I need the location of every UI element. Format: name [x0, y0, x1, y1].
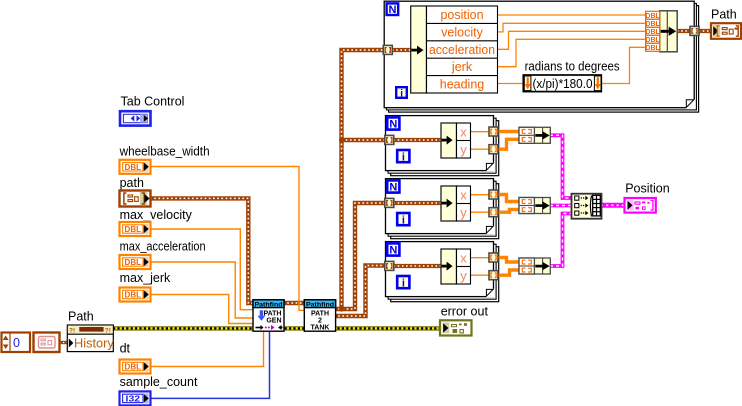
for-loop L3 (x/y loop 2) — [386, 179, 499, 239]
tunnel L2 left [] — [385, 135, 394, 144]
svg-text:Path: Path — [711, 8, 737, 22]
svg-text:dt: dt — [120, 342, 131, 356]
svg-text:wheelbase_width: wheelbase_width — [119, 144, 210, 158]
svg-text:N: N — [389, 245, 397, 257]
dog-ear L1 — [686, 99, 695, 108]
svg-text:i: i — [402, 277, 405, 289]
svg-text:max_acceleration: max_acceleration — [120, 240, 206, 254]
svg-text:max_velocity: max_velocity — [120, 208, 193, 222]
wire: error (History -> error out, behind VIs) — [113, 326, 440, 330]
sub-VI PATH 2 TANK (Pathfinder) — [304, 300, 335, 332]
junction dot (341.5,309) — [339, 306, 344, 311]
svg-text:History: History — [74, 335, 114, 350]
wire: dt -> PATH GEN bottom — [150, 330, 264, 367]
svg-text:jerk: jerk — [451, 60, 473, 74]
indicator: Position (XY graph) — [625, 198, 656, 213]
wire: unbundle velocity -> DBL2 — [497, 23, 646, 32]
unbundle x/y U4 (loop L4) — [441, 249, 471, 284]
for-loop L2 (x/y loop 1) — [386, 116, 499, 176]
wire: bundle1 -> build array (magenta dashed cluster) — [550, 135, 572, 198]
control: sample_count I32 — [120, 391, 151, 405]
i box L3 — [397, 213, 409, 226]
wire: L2 tunnel -> unbundle (cluster dotted) — [394, 138, 442, 142]
wire: sample_count -> PATH GEN bottom (blue) — [150, 330, 270, 398]
wire: L3 x row -> tunnel, y row -> tunnel — [471, 195, 490, 213]
bundle BU1 (loop L2 x,y -> cluster) — [519, 127, 550, 143]
svg-text:y: y — [460, 142, 467, 157]
svg-text:x: x — [460, 187, 467, 202]
svg-text:y: y — [460, 268, 467, 283]
control: max_velocity DBL — [120, 222, 151, 236]
tunnel L1 right [] — [690, 26, 699, 35]
wire: wheelbase_width -> PATH 2 TANK (orange) — [150, 167, 305, 311]
svg-text:path: path — [120, 176, 144, 190]
tunnel L4 right y [] — [489, 271, 498, 280]
control: max_jerk DBL — [120, 288, 151, 302]
svg-text:heading: heading — [440, 78, 485, 92]
svg-text:Path: Path — [68, 310, 94, 324]
svg-text:x: x — [460, 250, 467, 265]
for-loop L1 (top, path unbundler loop) — [384, 1, 698, 112]
svg-text:Pathfind: Pathfind — [306, 301, 334, 308]
wire: L2 x row -> tunnel, y row -> tunnel (orange thin) — [471, 132, 490, 150]
wire: unbundle jerk -> DBL4 — [497, 39, 646, 66]
tunnel L2 right y [] — [489, 145, 498, 154]
svg-text:(x/pi)*180.0: (x/pi)*180.0 — [533, 77, 593, 91]
wire: L4 tunnels -> bundle3 — [498, 258, 519, 276]
svg-text:acceleration: acceleration — [429, 43, 495, 57]
svg-text:DBL: DBL — [645, 13, 660, 20]
build-array B1 (5 DBL, top loop) — [645, 11, 677, 52]
bundle BU3 (loop L4 x,y -> cluster) — [519, 258, 550, 274]
build-array B2 (3 clusters -> array, before Position) — [572, 194, 602, 219]
svg-text:GEN: GEN — [266, 318, 281, 325]
svg-text:sample_count: sample_count — [120, 375, 198, 389]
svg-text:Tab Control: Tab Control — [121, 94, 185, 108]
array element box (Path cluster) — [34, 333, 60, 353]
wire: element box -> History node (squiggle) — [60, 341, 69, 344]
svg-text:DBL: DBL — [645, 29, 660, 36]
svg-text:i: i — [402, 151, 405, 163]
control: wheelbase_width DBL — [120, 160, 151, 174]
svg-text:DBL: DBL — [645, 45, 660, 52]
unbundle-by-name U1 (position..heading) — [411, 6, 498, 93]
svg-text:I32: I32 — [126, 394, 141, 403]
control: Tab Control — [120, 111, 151, 125]
svg-text:DBL: DBL — [125, 258, 142, 267]
N box L1 — [387, 3, 399, 16]
wire: L4 tunnel -> unbundle (cluster dotted) — [394, 264, 442, 268]
svg-text:0: 0 — [13, 336, 20, 350]
control: path (array of cluster) — [120, 191, 151, 207]
array index box — [2, 333, 31, 353]
tunnel L3 left [] — [385, 198, 394, 207]
svg-text:?!: ?! — [105, 328, 111, 335]
svg-text:velocity: velocity — [441, 25, 483, 39]
svg-text:x: x — [460, 124, 467, 139]
wire: L4 x row -> tunnel, y row -> tunnel — [471, 258, 490, 276]
svg-text:max_jerk: max_jerk — [120, 271, 171, 285]
expression node (x/pi)*180.0 — [523, 75, 601, 92]
svg-text:Pathfind: Pathfind — [255, 301, 283, 308]
wire: unbundle heading -> expression node — [497, 83, 524, 85]
svg-text:radians to degrees: radians to degrees — [525, 60, 620, 74]
svg-text:2: 2 — [318, 318, 322, 325]
wire: build array -> Position indicator (magenta rope) — [601, 203, 625, 208]
i box L1 — [396, 87, 407, 99]
svg-text:PATH: PATH — [311, 311, 329, 318]
svg-text:position: position — [440, 8, 483, 22]
svg-text:DBL: DBL — [645, 37, 660, 44]
for-loop L4 (x/y loop 3) — [386, 242, 499, 302]
svg-text:DBL: DBL — [645, 21, 660, 28]
tunnel L3 right x [] — [489, 190, 498, 199]
control: dt DBL — [120, 360, 151, 374]
control: max_acceleration DBL — [120, 255, 151, 269]
wire: L1 build-array -> tunnel -> Path indicator (brown array) — [677, 29, 712, 33]
wire: unbundle acceleration -> DBL3 — [497, 31, 646, 49]
N box L2 — [387, 117, 399, 130]
wire: PATH 2 TANK out1 trunk -> loops L1,L2,L3 (cluster-array) — [334, 50, 386, 309]
svg-text:N: N — [389, 119, 397, 131]
wire: L3 tunnels -> bundle2 — [498, 195, 519, 213]
i box L4 — [397, 276, 409, 289]
wire: max_jerk -> PATH GEN — [150, 295, 254, 324]
svg-text:PATH: PATH — [263, 310, 281, 317]
unbundle x/y U3 (loop L3) — [441, 186, 471, 221]
tunnel L4 left [] — [385, 261, 394, 270]
svg-text:DBL: DBL — [125, 363, 142, 372]
wire: bundle3 -> build array — [550, 214, 572, 267]
wire: PATH GEN -> PATH 2 TANK (cluster-array) — [283, 301, 305, 305]
sub-VI PATH GEN (Pathfinder) — [253, 300, 284, 331]
wire: L2 tunnels -> bundle1 (orange thick DBL array) — [498, 132, 519, 150]
wire: expression node -> DBL5 — [601, 47, 646, 83]
svg-text:error out: error out — [441, 304, 489, 318]
svg-text:Position: Position — [625, 182, 670, 196]
wire: max_velocity -> PATH GEN — [150, 229, 254, 310]
bundle BU2 (loop L3 x,y -> cluster) — [519, 198, 550, 214]
tunnel L3 right y [] — [489, 208, 498, 217]
N box L4 — [387, 243, 399, 256]
svg-text:DBL: DBL — [125, 163, 142, 172]
svg-text:N: N — [389, 4, 397, 16]
svg-text:N: N — [389, 182, 397, 194]
wire: bundle2 -> build array — [550, 204, 572, 208]
wire: path control -> PATH GEN (cluster-array) — [150, 198, 254, 303]
wire: L1 tunnel -> unbundle (cluster dotted) — [392, 48, 411, 52]
i box L2 — [397, 150, 409, 163]
wire: max_acceleration -> PATH GEN — [150, 262, 254, 318]
svg-text:DBL: DBL — [125, 291, 142, 300]
indicator: error out — [440, 320, 472, 335]
junction dot (341.5,140) — [339, 137, 344, 142]
N box L3 — [387, 180, 399, 193]
indicator: Path (array of cluster) — [711, 23, 741, 39]
tunnel L2 right x [] — [489, 127, 498, 136]
svg-text:?!: ?! — [69, 328, 75, 335]
History property node — [67, 325, 114, 352]
wire: unbundle position -> DBL1 (orange thin) — [497, 14, 646, 16]
svg-text:i: i — [402, 214, 405, 226]
wire: L3 tunnel -> unbundle (cluster dotted) — [394, 201, 442, 205]
svg-text:y: y — [460, 205, 467, 220]
unbundle x/y U2 (loop L2) — [441, 123, 471, 158]
tunnel L1 left [] — [383, 45, 392, 54]
svg-text:TANK: TANK — [311, 325, 330, 332]
wire: PATH 2 TANK out2 -> loop L4 (cluster-array) — [334, 266, 386, 317]
svg-text:DBL: DBL — [125, 225, 142, 234]
svg-text:i: i — [400, 88, 403, 99]
tunnel L4 right x [] — [489, 253, 498, 262]
